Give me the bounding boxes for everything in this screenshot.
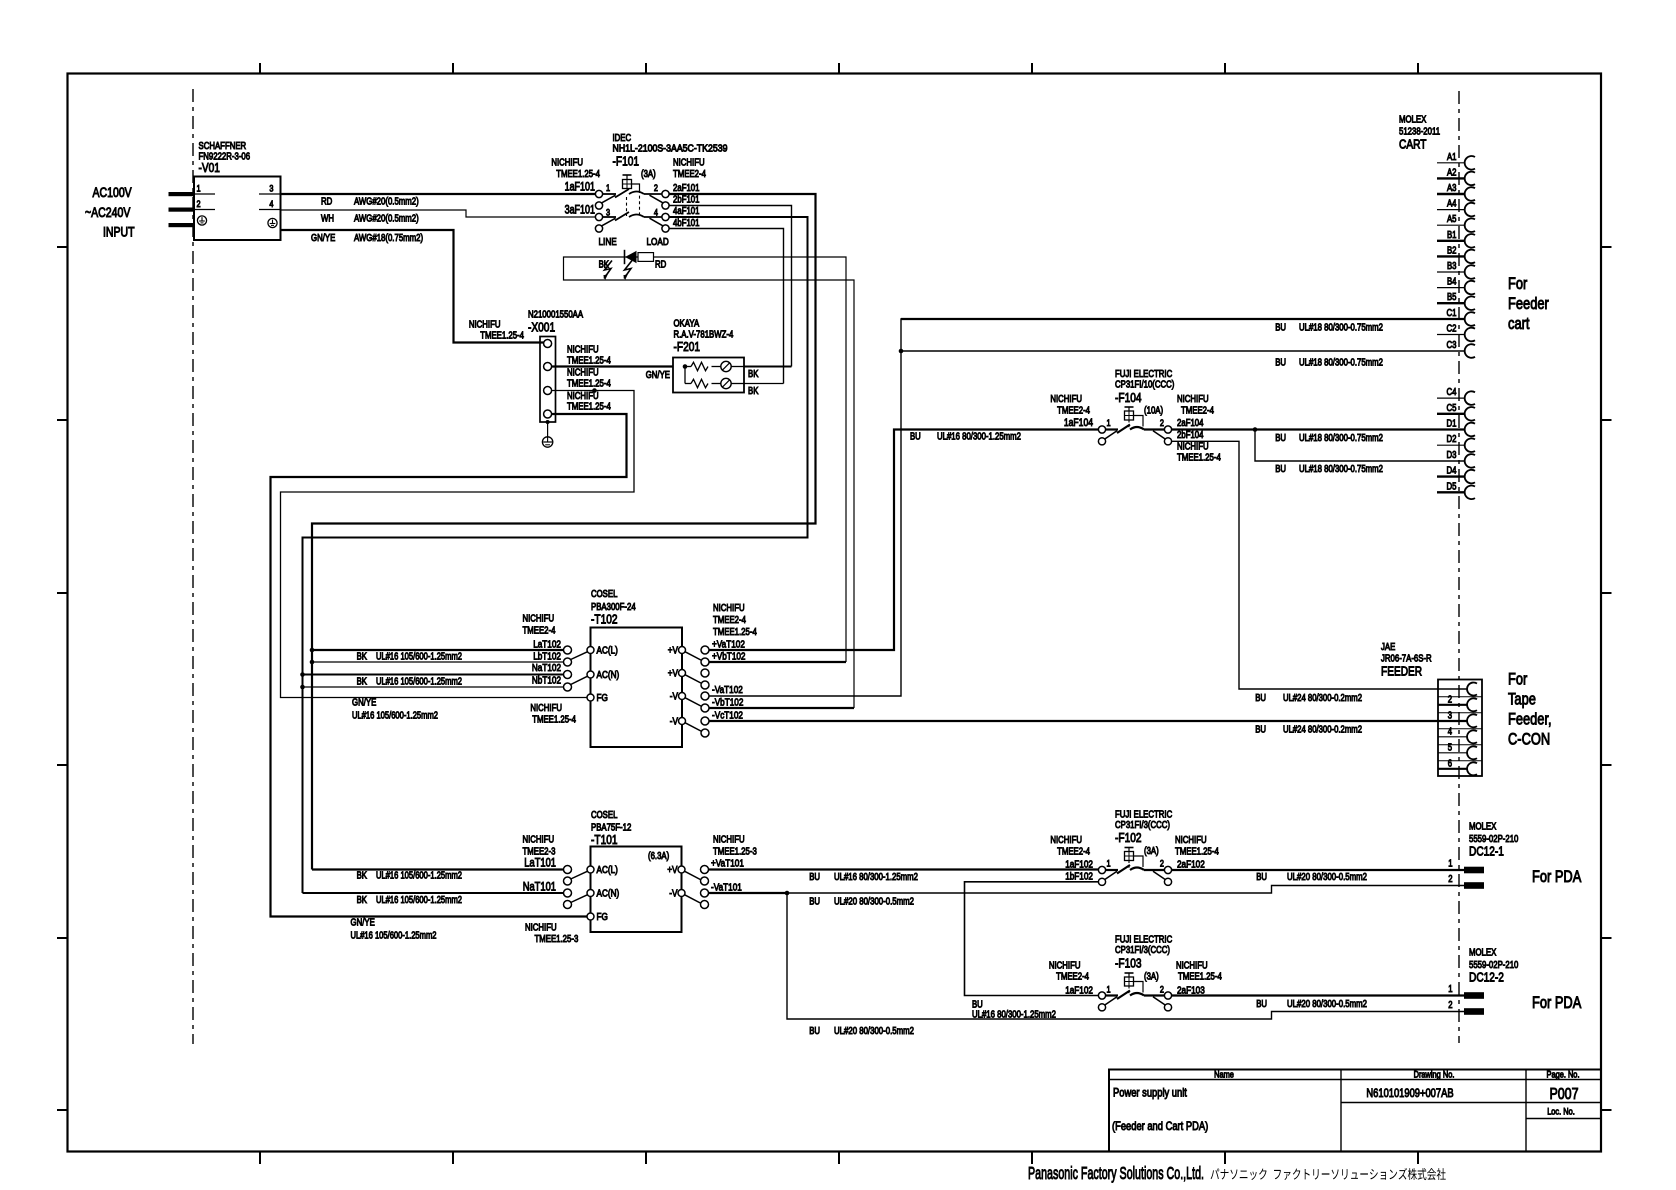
svg-text:UL#24 80/300-0.2mm2: UL#24 80/300-0.2mm2 [1283, 725, 1362, 736]
svg-text:FG: FG [597, 911, 608, 923]
svg-text:+V: +V [668, 645, 678, 657]
svg-text:-X001: -X001 [528, 320, 555, 335]
svg-text:-V: -V [670, 691, 678, 703]
svg-text:2: 2 [1448, 694, 1453, 705]
svg-text:CP31FI/3(CCC): CP31FI/3(CCC) [1115, 945, 1170, 956]
svg-text:TMEE2-4: TMEE2-4 [713, 615, 746, 626]
svg-text:AC(L): AC(L) [597, 864, 618, 876]
svg-text:UL#16 105/600-1.25mm2: UL#16 105/600-1.25mm2 [376, 652, 462, 663]
svg-text:TMEE2-4: TMEE2-4 [673, 169, 706, 180]
svg-text:TMEE1.25-4: TMEE1.25-4 [556, 169, 600, 180]
svg-text:1aF102: 1aF102 [1065, 985, 1093, 997]
svg-text:~AC240V: ~AC240V [85, 205, 130, 220]
svg-text:-V01: -V01 [199, 160, 220, 175]
svg-text:BK: BK [357, 677, 368, 688]
svg-text:BK: BK [748, 386, 759, 397]
svg-text:BU: BU [1275, 358, 1286, 369]
svg-text:AC100V: AC100V [93, 185, 132, 200]
svg-text:UL#16 105/600-1.25mm2: UL#16 105/600-1.25mm2 [352, 711, 438, 722]
svg-text:-T101: -T101 [591, 832, 618, 847]
svg-text:-V: -V [670, 716, 678, 728]
svg-text:+V: +V [667, 864, 677, 876]
svg-text:4: 4 [1448, 726, 1453, 737]
svg-text:UL#20 80/300-0.5mm2: UL#20 80/300-0.5mm2 [834, 1026, 914, 1037]
svg-text:A1: A1 [1447, 152, 1457, 163]
svg-text:CP31FI/10(CCC): CP31FI/10(CCC) [1115, 380, 1174, 391]
svg-text:B5: B5 [1447, 292, 1457, 303]
svg-text:UL#16 80/300-1.25mm2: UL#16 80/300-1.25mm2 [937, 432, 1021, 443]
svg-text:OKAYA: OKAYA [674, 319, 700, 330]
svg-text:Drawing No.: Drawing No. [1414, 1070, 1455, 1081]
svg-text:-F102: -F102 [1115, 830, 1142, 845]
svg-text:A4: A4 [1447, 199, 1457, 210]
svg-text:AWG#20(0.5mm2): AWG#20(0.5mm2) [354, 197, 419, 208]
svg-text:CART: CART [1399, 137, 1426, 152]
svg-text:D5: D5 [1447, 481, 1457, 492]
svg-text:NICHIFU: NICHIFU [469, 320, 501, 331]
svg-text:NICHIFU: NICHIFU [713, 835, 745, 846]
svg-text:RD: RD [321, 197, 332, 208]
svg-text:BU: BU [910, 432, 921, 443]
svg-text:JAE: JAE [1381, 642, 1396, 653]
svg-text:UL#16 105/600-1.25mm2: UL#16 105/600-1.25mm2 [376, 871, 462, 882]
svg-text:BU: BU [1255, 693, 1266, 704]
svg-text:NICHIFU: NICHIFU [713, 603, 745, 614]
svg-text:AC(L): AC(L) [597, 645, 618, 657]
svg-text:TMEE2-4: TMEE2-4 [1056, 972, 1089, 983]
svg-text:Feeder: Feeder [1508, 295, 1549, 313]
svg-text:B3: B3 [1447, 261, 1457, 272]
svg-text:FUJI ELECTRIC: FUJI ELECTRIC [1115, 810, 1172, 821]
svg-text:P007: P007 [1549, 1086, 1578, 1103]
svg-text:Panasonic Factory Solutions Co: Panasonic Factory Solutions Co.,Ltd. [1028, 1163, 1204, 1183]
svg-text:FUJI ELECTRIC: FUJI ELECTRIC [1115, 369, 1172, 380]
svg-text:NICHIFU: NICHIFU [1176, 961, 1208, 972]
svg-text:UL#18 80/300-0.75mm2: UL#18 80/300-0.75mm2 [1299, 358, 1383, 369]
svg-text:(3A): (3A) [1144, 972, 1159, 983]
svg-text:For PDA: For PDA [1532, 868, 1581, 886]
svg-text:-V: -V [669, 888, 677, 900]
svg-text:LaT102: LaT102 [533, 639, 561, 651]
svg-text:TMEE2-4: TMEE2-4 [1057, 847, 1090, 858]
svg-text:For PDA: For PDA [1532, 994, 1581, 1012]
svg-text:WH: WH [321, 214, 334, 225]
svg-text:NICHIFU: NICHIFU [1049, 961, 1081, 972]
svg-text:Loc. No.: Loc. No. [1547, 1107, 1575, 1118]
svg-text:AWG#18(0.75mm2): AWG#18(0.75mm2) [354, 233, 423, 244]
svg-text:BK: BK [357, 871, 368, 882]
svg-text:TMEE1.25-4: TMEE1.25-4 [1178, 972, 1222, 983]
svg-text:C4: C4 [1447, 387, 1457, 398]
svg-text:D3: D3 [1447, 450, 1457, 461]
svg-text:INPUT: INPUT [103, 225, 135, 240]
svg-text:UL#20 80/300-0.5mm2: UL#20 80/300-0.5mm2 [1287, 872, 1367, 883]
svg-text:Tape: Tape [1508, 691, 1536, 709]
svg-text:1: 1 [1448, 859, 1453, 870]
svg-text:4: 4 [269, 199, 273, 210]
svg-text:+VbT102: +VbT102 [712, 651, 746, 663]
svg-text:BU: BU [1275, 464, 1286, 475]
svg-text:2aF102: 2aF102 [1177, 859, 1205, 871]
svg-text:-F104: -F104 [1115, 390, 1142, 405]
svg-text:D4: D4 [1447, 466, 1457, 477]
svg-text:TMEE1.25-4: TMEE1.25-4 [532, 715, 576, 726]
svg-text:2: 2 [1448, 874, 1453, 885]
svg-text:UL#16 105/600-1.25mm2: UL#16 105/600-1.25mm2 [376, 895, 462, 906]
svg-text:BU: BU [809, 897, 820, 908]
svg-text:GN/YE: GN/YE [352, 698, 377, 709]
svg-text:2: 2 [1448, 1000, 1453, 1011]
svg-text:B4: B4 [1447, 277, 1457, 288]
svg-text:BK: BK [357, 895, 368, 906]
svg-text:GN/YE: GN/YE [646, 370, 671, 381]
svg-text:D2: D2 [1447, 434, 1457, 445]
svg-text:-T102: -T102 [591, 612, 618, 627]
svg-text:MOLEX: MOLEX [1469, 948, 1497, 959]
svg-text:2bF104: 2bF104 [1177, 430, 1204, 441]
svg-text:NICHIFU: NICHIFU [523, 614, 555, 625]
svg-text:1: 1 [1107, 418, 1111, 429]
svg-text:TMEE1.25-4: TMEE1.25-4 [1177, 453, 1221, 464]
svg-text:UL#18 80/300-0.75mm2: UL#18 80/300-0.75mm2 [1299, 323, 1383, 334]
svg-text:BU: BU [809, 872, 820, 883]
svg-text:UL#20 80/300-0.5mm2: UL#20 80/300-0.5mm2 [834, 897, 914, 908]
svg-text:-VaT101: -VaT101 [711, 882, 742, 894]
svg-text:BU: BU [809, 1026, 820, 1037]
svg-text:+V: +V [668, 668, 678, 680]
svg-text:B1: B1 [1447, 230, 1457, 241]
svg-text:NICHIFU: NICHIFU [1050, 835, 1082, 846]
svg-text:NICHIFU: NICHIFU [525, 923, 557, 934]
svg-text:UL#24 80/300-0.2mm2: UL#24 80/300-0.2mm2 [1283, 693, 1362, 704]
svg-text:3: 3 [606, 208, 610, 219]
svg-text:TMEE2-4: TMEE2-4 [523, 626, 556, 637]
svg-text:3: 3 [1448, 710, 1453, 721]
svg-text:LOAD: LOAD [647, 236, 670, 248]
svg-text:-F101: -F101 [613, 154, 640, 169]
svg-text:C3: C3 [1447, 340, 1457, 351]
svg-text:TMEE2-4: TMEE2-4 [1181, 406, 1214, 417]
svg-text:UL#18 80/300-0.75mm2: UL#18 80/300-0.75mm2 [1299, 433, 1383, 444]
svg-text:1: 1 [197, 184, 201, 195]
svg-text:BU: BU [1256, 999, 1267, 1010]
svg-text:1aF102: 1aF102 [1065, 859, 1093, 871]
svg-text:LaT101: LaT101 [524, 856, 556, 870]
svg-text:-VaT102: -VaT102 [712, 684, 743, 696]
svg-text:2aF104: 2aF104 [1177, 418, 1204, 429]
svg-text:TMEE1.25-4: TMEE1.25-4 [567, 402, 611, 413]
svg-text:UL#16 80/300-1.25mm2: UL#16 80/300-1.25mm2 [972, 1010, 1056, 1021]
svg-text:NICHIFU: NICHIFU [523, 835, 555, 846]
svg-text:LINE: LINE [599, 236, 617, 248]
svg-text:2: 2 [197, 199, 201, 210]
svg-text:LbT102: LbT102 [533, 651, 561, 663]
svg-text:FUJI ELECTRIC: FUJI ELECTRIC [1115, 935, 1172, 946]
svg-text:SCHAFFNER: SCHAFFNER [199, 141, 247, 152]
svg-text:TMEE1.25-4: TMEE1.25-4 [713, 627, 757, 638]
svg-text:Page. No.: Page. No. [1547, 1070, 1580, 1081]
svg-text:COSEL: COSEL [591, 589, 618, 600]
svg-text:TMEE1.25-3: TMEE1.25-3 [535, 934, 579, 945]
svg-text:4: 4 [654, 208, 658, 219]
svg-text:2: 2 [1160, 859, 1164, 870]
svg-text:NaT101: NaT101 [523, 880, 557, 894]
svg-text:GN/YE: GN/YE [351, 918, 376, 929]
svg-text:BU: BU [1275, 433, 1286, 444]
svg-text:UL#16 105/600-1.25mm2: UL#16 105/600-1.25mm2 [376, 677, 462, 688]
svg-text:NICHIFU: NICHIFU [1175, 835, 1207, 846]
svg-text:4bF101: 4bF101 [673, 218, 700, 229]
svg-text:MOLEX: MOLEX [1469, 822, 1497, 833]
svg-text:-F201: -F201 [674, 339, 701, 354]
svg-text:1aF104: 1aF104 [1064, 417, 1093, 429]
svg-text:NICHIFU: NICHIFU [551, 158, 583, 169]
svg-text:DC12-1: DC12-1 [1469, 844, 1504, 859]
svg-text:BU: BU [1256, 872, 1267, 883]
svg-text:FG: FG [597, 692, 608, 704]
svg-text:(3A): (3A) [641, 169, 656, 180]
svg-text:B2: B2 [1447, 245, 1457, 256]
svg-text:NICHIFU: NICHIFU [1177, 394, 1209, 405]
svg-text:cart: cart [1508, 315, 1530, 333]
svg-text:COSEL: COSEL [591, 810, 618, 821]
svg-text:TMEE1.25-3: TMEE1.25-3 [713, 847, 757, 858]
svg-text:NICHIFU: NICHIFU [1177, 442, 1209, 453]
svg-text:1: 1 [1448, 984, 1453, 995]
svg-text:MOLEX: MOLEX [1399, 115, 1427, 126]
svg-text:NICHIFU: NICHIFU [567, 345, 599, 356]
svg-text:3: 3 [269, 184, 273, 195]
svg-text:1: 1 [1107, 859, 1111, 870]
svg-text:Power supply unit: Power supply unit [1113, 1086, 1187, 1100]
svg-text:1: 1 [1107, 985, 1111, 996]
svg-text:+VaT102: +VaT102 [712, 639, 745, 651]
svg-text:-VcT102: -VcT102 [712, 710, 743, 722]
svg-text:GN/YE: GN/YE [311, 233, 336, 244]
svg-text:UL#16 105/600-1.25mm2: UL#16 105/600-1.25mm2 [351, 931, 437, 942]
svg-text:BK: BK [748, 369, 759, 380]
svg-text:2bF101: 2bF101 [673, 195, 700, 206]
svg-text:FEEDER: FEEDER [1381, 664, 1422, 679]
svg-text:NICHIFU: NICHIFU [530, 703, 562, 714]
svg-text:For: For [1508, 275, 1528, 293]
svg-text:2: 2 [654, 183, 658, 194]
svg-text:NICHIFU: NICHIFU [567, 368, 599, 379]
svg-text:N610101909+007AB: N610101909+007AB [1366, 1086, 1453, 1100]
svg-text:C5: C5 [1447, 403, 1457, 414]
svg-text:UL#20 80/300-0.5mm2: UL#20 80/300-0.5mm2 [1287, 999, 1367, 1010]
svg-text:BU: BU [1275, 323, 1286, 334]
svg-text:4aF101: 4aF101 [673, 206, 700, 217]
svg-text:NbT102: NbT102 [532, 675, 561, 687]
svg-text:A5: A5 [1447, 214, 1457, 225]
svg-text:TMEE2-4: TMEE2-4 [1057, 406, 1090, 417]
svg-text:IDEC: IDEC [613, 133, 632, 144]
svg-text:A3: A3 [1447, 183, 1457, 194]
svg-text:2: 2 [1160, 985, 1164, 996]
svg-text:1aF101: 1aF101 [565, 182, 595, 194]
svg-text:C1: C1 [1447, 308, 1457, 319]
svg-text:TMEE1.25-4: TMEE1.25-4 [567, 379, 611, 390]
svg-text:NICHIFU: NICHIFU [1050, 394, 1082, 405]
svg-text:-F103: -F103 [1115, 956, 1142, 971]
svg-text:C-CON: C-CON [1508, 731, 1550, 749]
svg-text:AC(N): AC(N) [597, 888, 620, 900]
svg-text:A2: A2 [1447, 167, 1457, 178]
svg-text:RD: RD [655, 260, 666, 271]
svg-text:1bF102: 1bF102 [1065, 871, 1093, 883]
svg-text:C2: C2 [1447, 324, 1457, 335]
svg-text:+VaT101: +VaT101 [711, 858, 744, 870]
svg-text:AWG#20(0.5mm2): AWG#20(0.5mm2) [354, 214, 419, 225]
svg-text:TMEE1.25-4: TMEE1.25-4 [1175, 847, 1219, 858]
svg-text:TMEE1.25-4: TMEE1.25-4 [480, 331, 524, 342]
svg-text:For: For [1508, 671, 1528, 689]
svg-text:NaT102: NaT102 [532, 662, 561, 674]
svg-text:(10A): (10A) [1144, 406, 1163, 417]
svg-text:D1: D1 [1447, 419, 1457, 430]
svg-text:(Feeder and Cart PDA): (Feeder and Cart PDA) [1112, 1119, 1208, 1133]
svg-text:1: 1 [606, 183, 610, 194]
svg-text:(3A): (3A) [1144, 846, 1159, 857]
svg-text:AC(N): AC(N) [597, 669, 620, 681]
svg-text:BU: BU [1255, 725, 1266, 736]
svg-text:(6.3A): (6.3A) [648, 851, 669, 862]
svg-text:6: 6 [1448, 758, 1453, 769]
svg-text:DC12-2: DC12-2 [1469, 970, 1504, 985]
svg-text:2: 2 [1160, 418, 1164, 429]
svg-text:2aF101: 2aF101 [673, 183, 700, 194]
svg-text:UL#16 80/300-1.25mm2: UL#16 80/300-1.25mm2 [834, 872, 918, 883]
svg-text:Name: Name [1214, 1070, 1234, 1081]
svg-text:-VbT102: -VbT102 [712, 697, 744, 709]
svg-text:NICHIFU: NICHIFU [673, 158, 705, 169]
svg-text:5: 5 [1448, 742, 1453, 753]
svg-text:Feeder,: Feeder, [1508, 711, 1552, 729]
svg-text:UL#18 80/300-0.75mm2: UL#18 80/300-0.75mm2 [1299, 464, 1383, 475]
svg-text:TMEE1.25-4: TMEE1.25-4 [567, 355, 611, 366]
svg-text:BK: BK [357, 652, 368, 663]
svg-text:3aF101: 3aF101 [565, 205, 595, 217]
